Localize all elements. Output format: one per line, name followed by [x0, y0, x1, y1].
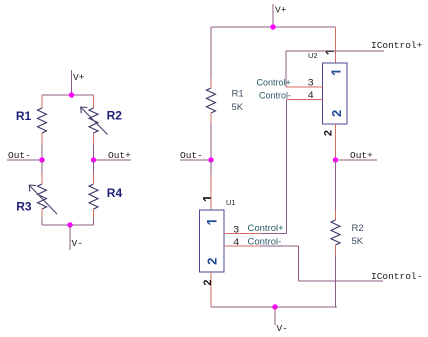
resistor R2 (bridge, variable) [89, 108, 98, 133]
wire Out- node down to U1 pin 1 [210, 160, 212, 174]
svg-text:R2: R2 [352, 223, 364, 234]
wire IControl+ horizontal [286, 50, 384, 52]
wire riser U2 pin4 to U1 pin3 [286, 100, 288, 234]
label Control- at U1 [248, 237, 282, 248]
value label 5K of R1 [232, 102, 244, 113]
wire IControl+ riser to U2 pin 3 [285, 51, 287, 87]
resistor R2 5K (right) [331, 220, 340, 245]
junction node Out- (right) [208, 157, 213, 162]
junction node V- (right) [272, 304, 277, 309]
wire V+ stub (bridge) [71, 70, 73, 95]
wire V- stub (right) [274, 307, 276, 325]
inner pin digit 2 of U1 [205, 258, 220, 265]
svg-text:Control-: Control- [248, 237, 282, 248]
net label V+ (bridge) [73, 72, 85, 83]
svg-text:2: 2 [205, 258, 220, 265]
svg-text:Control+: Control+ [248, 223, 285, 234]
pin number 4 of U2 [308, 90, 314, 102]
net label IControl- [371, 271, 422, 282]
pin number 1 of U1 [203, 198, 211, 201]
svg-text:3: 3 [233, 225, 239, 237]
op-amp U2 body [323, 63, 348, 124]
svg-text:R2: R2 [107, 109, 123, 123]
pin number 1 of U2 [326, 51, 334, 54]
arrow of variable resistor R2 [81, 107, 108, 135]
wire R2 bottom lead (red pin) [335, 245, 337, 255]
svg-text:R3: R3 [16, 199, 32, 213]
svg-text:U2: U2 [308, 51, 318, 60]
wire IControl- riser down [298, 246, 300, 281]
svg-text:5K: 5K [232, 102, 244, 113]
net label Out+ (bridge) [108, 150, 131, 161]
pin number 3 of U1 [233, 225, 239, 237]
wire U1 pin 3 to riser (Control+) [261, 233, 287, 235]
wire R3 to bottom rail [41, 218, 43, 225]
net label V- (right) [277, 323, 288, 334]
label R3 (bridge) [16, 199, 32, 213]
svg-text:2: 2 [329, 110, 344, 117]
wire Out+ stub (right) [336, 159, 378, 161]
wire R1 top lead (red pin) [41, 95, 43, 108]
label Control- at U2 [259, 91, 291, 101]
wire U1 pin 3 lead (red) [224, 233, 261, 235]
resistor R1 (bridge) [38, 108, 47, 133]
net label V+ (right) [275, 5, 287, 16]
svg-text:Out+: Out+ [108, 150, 131, 161]
label Control+ at U1 [248, 223, 285, 234]
op-amp U1 body [200, 210, 225, 272]
wire Out+ stub (bridge) [94, 159, 132, 161]
wire R2 down to bottom rail [335, 255, 337, 307]
inner pin digit 1 of U1 [207, 221, 217, 224]
wire Out- node to R3 [41, 160, 43, 173]
inner pin digit 1 of U2 [332, 72, 341, 75]
wire Out+ node to R4 [93, 160, 95, 173]
label R2 (right) [352, 223, 364, 234]
net label Out+ (right) [350, 150, 373, 161]
wire R1 bottom lead (red pin) [41, 133, 43, 144]
wire V- stub (bridge) [69, 225, 71, 250]
svg-text:V-: V- [277, 323, 288, 334]
wire U1 pin 2 lead (red) [210, 272, 212, 307]
svg-text:2: 2 [202, 280, 214, 286]
svg-text:Out-: Out- [180, 150, 203, 161]
wire V+ stub (right) [272, 4, 274, 27]
svg-text:Control-: Control- [259, 91, 291, 101]
wire U1 pin 4 toward IControl- [261, 245, 299, 247]
svg-text:3: 3 [308, 78, 314, 90]
pin number 4 of U1 [233, 237, 239, 249]
label Control+ at U2 [257, 78, 291, 88]
junction node Out+ (right) [333, 157, 338, 162]
junction node V- (bridge) [67, 222, 72, 227]
wire R2 top lead (red pin) [335, 210, 337, 220]
value label 5K of R2 [352, 236, 364, 247]
svg-text:IControl+: IControl+ [371, 40, 423, 51]
label U1 [226, 198, 236, 207]
wire R4 bottom lead (red pin) [93, 209, 95, 218]
svg-text:R4: R4 [107, 186, 123, 200]
wire R1 to Out- node [210, 123, 212, 160]
wire U2 pin 2 lead (red) [335, 124, 337, 160]
junction node Out- (bridge) [39, 157, 44, 162]
svg-text:Out-: Out- [8, 150, 31, 161]
svg-text:U1: U1 [226, 198, 236, 207]
wire R2 to Out+ node [93, 144, 95, 160]
wire R2 top lead (red pin) [93, 95, 95, 108]
label U2 [308, 51, 318, 60]
label R2 (bridge) [107, 109, 123, 123]
wire Out+ node down to R2 [335, 160, 337, 210]
wire bridge top rail [42, 94, 94, 96]
wire U1 pin 4 lead (red) [224, 245, 261, 247]
wire R1 bottom lead (red pin) [210, 113, 212, 123]
wire R4 to bottom rail [93, 218, 95, 225]
junction node V+ (bridge) [69, 92, 74, 97]
svg-text:V-: V- [72, 238, 83, 249]
wire R1 to Out- node [41, 144, 43, 160]
resistor R3 (bridge, variable) [38, 184, 47, 209]
wire U1 pin 1 lead (red) [210, 174, 212, 210]
svg-text:Out+: Out+ [350, 150, 373, 161]
wire R4 top lead (red pin) [93, 173, 95, 184]
svg-text:Control+: Control+ [257, 78, 291, 88]
wire bridge bottom rail [42, 224, 94, 226]
wire U2 pin 1 lead (red, V+ rail down) [335, 27, 337, 63]
label R1 (right) [232, 89, 244, 100]
wire V+ rail down to R1 [210, 27, 212, 78]
wire R1 top lead (red pin) [210, 78, 212, 88]
svg-text:R1: R1 [16, 109, 32, 123]
label R4 (bridge) [107, 186, 123, 200]
pin number 2 of U2 [322, 130, 334, 136]
wire Out- stub (bridge) [7, 159, 42, 161]
wire IControl- horizontal [299, 280, 384, 282]
svg-text:R1: R1 [232, 89, 244, 100]
wire R3 top lead (red pin) [41, 173, 43, 184]
wire U2 pin 3 lead (red) [286, 86, 323, 88]
junction node Out+ (bridge) [91, 157, 96, 162]
junction node V+ (right) [270, 24, 275, 29]
resistor R1 5K (right) [207, 88, 216, 113]
svg-text:V+: V+ [275, 5, 287, 16]
resistor R4 (bridge) [89, 184, 98, 209]
label R1 (bridge) [16, 109, 32, 123]
pin number 3 of U2 [308, 78, 314, 90]
wire Out- stub (right) [180, 159, 211, 161]
inner pin digit 2 of U2 [329, 110, 344, 117]
svg-text:V+: V+ [73, 72, 85, 83]
pin number 2 of U1 [202, 280, 214, 286]
net label Out- (right) [180, 150, 203, 161]
svg-text:4: 4 [233, 237, 239, 249]
arrow of variable resistor R3 [29, 185, 57, 214]
svg-text:IControl-: IControl- [371, 271, 422, 282]
wire top rail (right) [211, 26, 336, 28]
svg-text:4: 4 [308, 90, 314, 102]
wire R2 bottom lead (red pin) [93, 133, 95, 144]
wire R3 bottom lead (red pin) [41, 209, 43, 218]
net label V- (bridge) [72, 238, 83, 249]
svg-text:5K: 5K [352, 236, 364, 247]
svg-text:2: 2 [322, 130, 334, 136]
wire bottom rail (right) [211, 306, 337, 308]
wire U2 pin 4 lead (red) [287, 99, 323, 101]
net label IControl+ [371, 40, 423, 51]
net label Out- (bridge) [8, 150, 31, 161]
